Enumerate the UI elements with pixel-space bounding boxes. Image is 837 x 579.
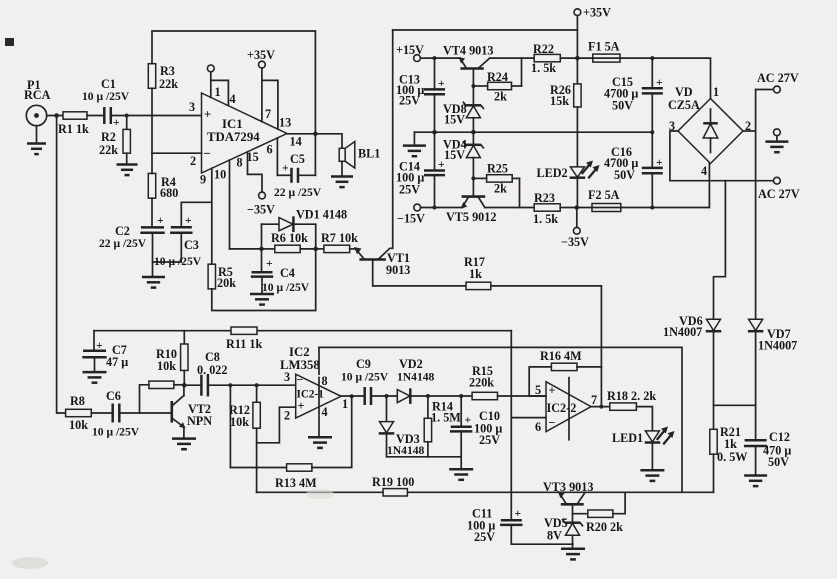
svg-text:8: 8 bbox=[322, 374, 328, 388]
terminal +15V bbox=[414, 55, 421, 62]
svg-text:15V: 15V bbox=[444, 148, 465, 162]
svg-text:2: 2 bbox=[284, 409, 290, 423]
node output bbox=[313, 132, 318, 137]
svg-text:+35V: +35V bbox=[583, 6, 611, 20]
wire +15V row bbox=[420, 57, 460, 59]
svg-text:+: + bbox=[96, 339, 103, 352]
ground bbox=[172, 437, 196, 440]
svg-text:IC2‑2: IC2‑2 bbox=[547, 401, 577, 415]
resistor R14 1.5M bbox=[427, 396, 429, 418]
ground bbox=[561, 548, 585, 551]
op-amp IC1 TDA7294 bbox=[202, 93, 288, 173]
svg-text:R13 4M: R13 4M bbox=[275, 476, 317, 490]
wire LED1 ground lead bbox=[651, 443, 653, 471]
ground bbox=[640, 469, 664, 472]
svg-text:C6: C6 bbox=[106, 389, 121, 403]
wire VT1 collector riser bbox=[392, 30, 394, 248]
wire pin3 to R13 bbox=[229, 385, 231, 467]
node input bbox=[54, 113, 59, 118]
svg-text:VD: VD bbox=[675, 85, 693, 99]
capacitor C8 0.022 bbox=[200, 375, 203, 396]
svg-text:25V: 25V bbox=[474, 530, 495, 544]
svg-text:VT4 9013: VT4 9013 bbox=[443, 44, 493, 58]
svg-text:25V: 25V bbox=[399, 183, 420, 197]
svg-text:1N4007: 1N4007 bbox=[758, 339, 797, 353]
terminal -35V bbox=[576, 208, 578, 228]
capacitor C4 bbox=[261, 249, 263, 272]
transistor VT1 9013 bbox=[361, 258, 385, 261]
wire VD6 branch bbox=[714, 181, 726, 320]
svg-text:9: 9 bbox=[200, 173, 206, 187]
wire C11 drop bbox=[510, 418, 512, 521]
wire pin6 drop bbox=[510, 331, 512, 418]
ground bbox=[449, 468, 473, 471]
svg-text:F2 5A: F2 5A bbox=[588, 188, 620, 202]
svg-text:+: + bbox=[185, 214, 192, 227]
+35V terminal IC1 bbox=[259, 61, 266, 68]
wire output to speaker bbox=[287, 134, 342, 149]
svg-text:15k: 15k bbox=[550, 94, 569, 108]
wire VD1 loop left bbox=[261, 224, 263, 249]
svg-text:R11 1k: R11 1k bbox=[226, 337, 262, 351]
resistor R17 1k bbox=[373, 285, 466, 287]
speaker BL1 bbox=[339, 148, 345, 161]
svg-text:VT3 9013: VT3 9013 bbox=[543, 480, 593, 494]
svg-text:6: 6 bbox=[535, 420, 541, 434]
resistor R8 10k bbox=[57, 116, 66, 414]
resistor R21 1k 0.5W bbox=[710, 429, 717, 454]
capacitor C16 bbox=[651, 132, 653, 168]
node R6 left bbox=[259, 247, 264, 252]
svg-text:50V: 50V bbox=[614, 168, 635, 182]
svg-text:0. 5W: 0. 5W bbox=[717, 450, 747, 464]
wire top rail bbox=[393, 29, 578, 31]
wire pin4 ground bbox=[318, 417, 320, 438]
wire mid rail bbox=[414, 131, 652, 133]
wire R4 to C2 bbox=[151, 198, 153, 227]
wire VD1 loop right bbox=[315, 224, 317, 249]
svg-text:1: 1 bbox=[342, 397, 348, 411]
wire bbox=[87, 115, 104, 117]
pin 4 stem bbox=[211, 80, 229, 105]
svg-text:1N4148: 1N4148 bbox=[397, 371, 435, 384]
svg-text:C5: C5 bbox=[290, 152, 305, 166]
wire VD3 bottom row bbox=[387, 433, 462, 456]
LED LED2 bbox=[570, 167, 584, 177]
op-amp IC2-1 bbox=[296, 374, 341, 418]
wire R12 to bus bbox=[256, 443, 258, 493]
wire bridge pin2 to AC line bbox=[743, 130, 756, 132]
svg-text:2k: 2k bbox=[494, 90, 507, 104]
node VT2 collector bbox=[182, 383, 187, 388]
wire pin10 to R6 node bbox=[230, 248, 262, 250]
-35V terminal IC1 bbox=[259, 192, 266, 199]
op-amp IC2-2 bbox=[546, 382, 591, 432]
wire supply long line bbox=[319, 347, 682, 492]
diode VD6 1N4007 bbox=[707, 319, 721, 330]
wire bus row bbox=[257, 491, 384, 493]
ground bbox=[83, 371, 107, 374]
svg-text:4: 4 bbox=[322, 405, 328, 419]
connector P1 RCA bbox=[26, 105, 46, 125]
svg-text:R18 2. 2k: R18 2. 2k bbox=[607, 389, 656, 403]
svg-text:R3: R3 bbox=[160, 64, 175, 78]
resistor feedback VT2 bbox=[149, 381, 174, 388]
transistor VT2 NPN bbox=[171, 402, 174, 421]
svg-text:20k: 20k bbox=[217, 276, 236, 290]
diode VD3 1N4148 bbox=[386, 396, 388, 422]
svg-text:R19 100: R19 100 bbox=[372, 475, 414, 489]
svg-text:+: + bbox=[438, 77, 445, 90]
svg-text:+15V: +15V bbox=[396, 43, 424, 57]
capacitor C7 47u bbox=[93, 331, 95, 351]
svg-text:15V: 15V bbox=[444, 113, 465, 127]
resistor R6 10k bbox=[262, 248, 275, 250]
svg-text:1k: 1k bbox=[469, 267, 482, 281]
svg-text:4: 4 bbox=[701, 164, 707, 178]
wire pin8 stem bbox=[318, 347, 320, 374]
wire collector to R22 bbox=[490, 57, 534, 59]
pin 15 stem bbox=[248, 152, 263, 192]
wire C2 ground lead bbox=[152, 233, 154, 277]
svg-text:R2: R2 bbox=[101, 130, 116, 144]
svg-text:1: 1 bbox=[713, 85, 719, 99]
svg-text:−: − bbox=[204, 147, 211, 161]
svg-text:LED2: LED2 bbox=[537, 166, 568, 180]
resistor R3 22k bbox=[148, 64, 155, 89]
svg-text:IC1: IC1 bbox=[222, 117, 243, 131]
svg-text:22 μ /25V: 22 μ /25V bbox=[99, 237, 147, 250]
svg-text:C1: C1 bbox=[101, 77, 116, 91]
diode VD2 1N4148 bbox=[397, 390, 410, 403]
ground bbox=[261, 277, 263, 294]
svg-text:5: 5 bbox=[535, 383, 541, 397]
svg-text:−35V: −35V bbox=[561, 235, 589, 249]
resistor R10 10k bbox=[183, 331, 185, 344]
resistor R22 1.5k bbox=[534, 54, 560, 61]
svg-text:4: 4 bbox=[230, 92, 236, 106]
ground chassis terminal bbox=[774, 129, 781, 136]
svg-text:6: 6 bbox=[267, 143, 273, 157]
wire AC top bbox=[756, 89, 774, 91]
capacitor C14 bbox=[434, 132, 436, 170]
svg-text:47 μ: 47 μ bbox=[106, 355, 128, 369]
svg-text:NPN: NPN bbox=[187, 414, 212, 428]
node R6 right bbox=[313, 247, 318, 252]
svg-text:1N4007: 1N4007 bbox=[663, 325, 702, 339]
pin 10 stem bbox=[229, 160, 231, 249]
resistor R2 22k bbox=[125, 114, 129, 118]
pin 13 stem bbox=[262, 80, 278, 129]
wire bridge pin3 to AC bottom bbox=[670, 131, 774, 181]
wire pin7 row bbox=[591, 406, 610, 408]
resistor R4 680 bbox=[148, 173, 155, 198]
svg-text:+: + bbox=[465, 414, 472, 427]
wire VD2 to R15 bbox=[410, 395, 472, 397]
resistor R15 220k bbox=[472, 392, 497, 399]
svg-text:22 μ /25V: 22 μ /25V bbox=[274, 186, 322, 199]
svg-text:−: − bbox=[549, 416, 556, 430]
LED LED1 bbox=[645, 431, 659, 442]
svg-text:TDA7294: TDA7294 bbox=[207, 130, 260, 144]
svg-text:1. 5k: 1. 5k bbox=[531, 61, 556, 75]
zener VD8 15V bbox=[466, 104, 481, 107]
ground bbox=[341, 161, 343, 176]
capacitor C11 100u 25V bbox=[501, 519, 522, 522]
wire -15V row bbox=[421, 207, 463, 209]
svg-text:R20 2k: R20 2k bbox=[586, 520, 623, 534]
feedback wire top box bbox=[152, 31, 315, 134]
wire pin6 row bbox=[511, 417, 546, 419]
svg-text:+: + bbox=[656, 76, 663, 89]
svg-text:C12: C12 bbox=[769, 430, 790, 444]
svg-text:C2: C2 bbox=[115, 224, 130, 238]
svg-text:C9: C9 bbox=[356, 357, 371, 371]
wire C8 to pin3 bbox=[208, 384, 296, 386]
ground bbox=[142, 276, 165, 279]
svg-text:+: + bbox=[549, 384, 556, 398]
svg-text:+35V: +35V bbox=[247, 48, 275, 62]
svg-text:AC 27V: AC 27V bbox=[757, 71, 799, 85]
svg-text:15: 15 bbox=[247, 150, 259, 164]
svg-text:F1 5A: F1 5A bbox=[588, 40, 620, 54]
svg-text:R22: R22 bbox=[533, 42, 554, 56]
wire F2 to bridge pin4 bbox=[621, 164, 710, 208]
svg-text:+: + bbox=[282, 162, 289, 175]
svg-text:10k: 10k bbox=[157, 359, 176, 373]
svg-text:1k: 1k bbox=[724, 437, 737, 451]
svg-text:AC 27V: AC 27V bbox=[758, 187, 800, 201]
svg-text:680: 680 bbox=[160, 186, 178, 200]
resistor R13 4M bbox=[230, 467, 286, 469]
svg-text:7: 7 bbox=[591, 393, 597, 407]
wire VT5 collector row bbox=[485, 207, 534, 209]
capacitor C12 470u 50V bbox=[745, 439, 767, 442]
resistor R11 1k bbox=[231, 327, 257, 334]
svg-text:+: + bbox=[515, 507, 522, 520]
ground bbox=[308, 436, 332, 439]
svg-text:1. 5M: 1. 5M bbox=[431, 411, 461, 425]
resistor R1 1k bbox=[63, 112, 87, 119]
capacitor C1 bbox=[103, 107, 106, 124]
svg-text:50V: 50V bbox=[768, 455, 789, 469]
svg-text:R1 1k: R1 1k bbox=[58, 122, 89, 136]
svg-text:VT5 9012: VT5 9012 bbox=[446, 210, 496, 224]
terminal -15V bbox=[414, 204, 421, 211]
bridge rectifier VD CZ5A bbox=[678, 99, 743, 164]
svg-text:+: + bbox=[266, 257, 273, 270]
wire C6 to VT2 base bbox=[119, 412, 172, 414]
svg-text:25V: 25V bbox=[479, 433, 500, 447]
svg-text:8: 8 bbox=[237, 156, 243, 170]
svg-text:+: + bbox=[298, 399, 305, 413]
svg-text:R8: R8 bbox=[70, 394, 85, 408]
wire +35V drop bbox=[576, 16, 578, 59]
capacitor C13 bbox=[434, 58, 436, 89]
capacitor C5 bbox=[277, 174, 291, 176]
wire bbox=[111, 115, 202, 117]
svg-text:R16 4M: R16 4M bbox=[540, 349, 582, 363]
resistor R16 4M bbox=[529, 367, 551, 396]
transistor VT3 9013 bbox=[562, 503, 582, 506]
zener VD4 15V bbox=[472, 132, 474, 145]
wire signal row to IC2-1 bbox=[184, 384, 201, 386]
svg-text:VD1 4148: VD1 4148 bbox=[296, 208, 347, 222]
ground bbox=[117, 163, 138, 166]
svg-text:+: + bbox=[204, 108, 211, 122]
svg-text:8V: 8V bbox=[547, 529, 562, 543]
transistor VT5 9012 bbox=[463, 195, 484, 198]
svg-text:R6 10k: R6 10k bbox=[271, 231, 308, 245]
svg-text:CZ5A: CZ5A bbox=[668, 98, 700, 112]
pin 6 stem bbox=[276, 138, 278, 175]
svg-text:C4: C4 bbox=[280, 266, 295, 280]
wire pin2 jog bbox=[257, 407, 296, 443]
svg-text:−15V: −15V bbox=[397, 212, 425, 226]
svg-text:C3: C3 bbox=[184, 238, 199, 252]
svg-text:10: 10 bbox=[214, 168, 226, 182]
node -35 rail bbox=[575, 205, 580, 210]
wire R5 bottom row bbox=[212, 249, 316, 311]
wire LED2 to -35 rail bbox=[576, 178, 578, 208]
capacitor C2 bbox=[141, 226, 164, 229]
svg-text:22k: 22k bbox=[99, 143, 118, 157]
wire R26 to LED2 bbox=[576, 107, 578, 167]
svg-text:7: 7 bbox=[265, 107, 271, 121]
capacitor C6 bbox=[91, 412, 112, 414]
svg-text:9013: 9013 bbox=[386, 263, 410, 277]
svg-text:3: 3 bbox=[284, 370, 290, 384]
pin 7 stem bbox=[261, 68, 263, 122]
wire R18 to LED1 bbox=[636, 407, 652, 431]
svg-text:−35V: −35V bbox=[247, 203, 275, 217]
svg-text:RCA: RCA bbox=[24, 88, 51, 102]
svg-text:13: 13 bbox=[279, 116, 291, 130]
node C13/C14 bbox=[432, 130, 437, 135]
svg-text:IC2: IC2 bbox=[289, 345, 310, 359]
resistor R23 1.5k bbox=[534, 204, 560, 211]
wire bbox=[47, 115, 63, 117]
svg-text:R23: R23 bbox=[534, 191, 555, 205]
svg-text:+: + bbox=[656, 156, 663, 169]
ground bbox=[744, 474, 767, 477]
svg-text:BL1: BL1 bbox=[358, 147, 380, 161]
transistor VT4 9013 bbox=[462, 67, 483, 70]
svg-text:10k: 10k bbox=[230, 415, 249, 429]
svg-text:LED1: LED1 bbox=[612, 431, 643, 445]
resistor R26 15k bbox=[576, 58, 578, 84]
svg-text:1: 1 bbox=[215, 85, 221, 99]
wire C9 to VD2 bbox=[371, 395, 397, 397]
svg-text:C8: C8 bbox=[205, 350, 220, 364]
capacitor C3 bbox=[171, 226, 192, 229]
svg-text:50V: 50V bbox=[612, 99, 633, 113]
svg-text:25V: 25V bbox=[399, 94, 420, 108]
terminal +35V bbox=[574, 9, 581, 16]
wire R11 row bbox=[94, 330, 231, 332]
diode VD1 4148 bbox=[262, 223, 280, 225]
wire R3 to minus row bbox=[151, 88, 153, 153]
diode VD7 1N4007 bbox=[749, 319, 763, 330]
svg-text:R25: R25 bbox=[487, 162, 508, 176]
node +35 rail bbox=[575, 56, 580, 61]
svg-text:3: 3 bbox=[189, 100, 195, 114]
resistor R25 2k bbox=[487, 175, 513, 182]
svg-text:VD2: VD2 bbox=[399, 357, 423, 371]
pin 1 terminal bbox=[210, 72, 212, 98]
wire VD7 down and join bbox=[755, 331, 757, 440]
node R6/R7 junction dots done above bbox=[5, 38, 14, 46]
fuse F2 5A bbox=[592, 204, 621, 212]
svg-text:10 μ /25V: 10 μ /25V bbox=[82, 90, 130, 103]
svg-text:10k: 10k bbox=[69, 418, 88, 432]
svg-text:220k: 220k bbox=[469, 376, 494, 390]
wire minus input row bbox=[152, 152, 202, 154]
wire VD6 down bbox=[713, 331, 715, 429]
svg-text:−: − bbox=[297, 373, 304, 387]
zener VD5 8V bbox=[565, 521, 580, 524]
resistor R19 100 bbox=[383, 489, 407, 496]
wire output row bbox=[341, 395, 365, 397]
svg-text:R24: R24 bbox=[487, 70, 508, 84]
wire R21 to bus bbox=[713, 454, 715, 492]
svg-text:+: + bbox=[113, 116, 120, 129]
fuse F1 5A bbox=[593, 54, 620, 62]
wire F1 to bridge pin1 bbox=[620, 58, 711, 98]
capacitor C9 bbox=[363, 387, 366, 405]
resistor R7 10k bbox=[316, 248, 324, 250]
wire C3 bottom bbox=[153, 233, 182, 262]
svg-text:0. 022: 0. 022 bbox=[197, 363, 227, 377]
svg-text:2: 2 bbox=[190, 154, 196, 168]
resistor R5 20k bbox=[208, 264, 215, 289]
svg-text:10 μ /25V: 10 μ /25V bbox=[262, 281, 310, 294]
resistor R24 2k bbox=[488, 82, 512, 89]
node VD8/VD4 bbox=[471, 130, 476, 135]
svg-text:R7 10k: R7 10k bbox=[321, 231, 358, 245]
pin 9 stem bbox=[211, 168, 213, 264]
svg-text:10 μ /25V: 10 μ /25V bbox=[92, 426, 140, 439]
resistor R20 2k bbox=[573, 513, 588, 515]
svg-text:2k: 2k bbox=[494, 182, 507, 196]
ground bbox=[36, 126, 38, 144]
resistor R18 2.2k bbox=[610, 403, 637, 410]
capacitor C10 100u 25V bbox=[460, 396, 462, 427]
svg-text:10 μ /25V: 10 μ /25V bbox=[341, 371, 389, 384]
terminal AC 27V top bbox=[774, 86, 781, 93]
capacitor C15 bbox=[651, 58, 653, 88]
svg-text:IC2‑1: IC2‑1 bbox=[297, 389, 325, 401]
svg-text:1N4148: 1N4148 bbox=[387, 444, 425, 457]
svg-text:14: 14 bbox=[290, 135, 302, 149]
terminal AC 27V bottom bbox=[774, 177, 781, 184]
resistor R12 10k bbox=[256, 385, 258, 402]
wire R17 to IC2-2 output bbox=[491, 286, 602, 407]
wire pin9 branch to C3 bbox=[181, 202, 212, 227]
svg-text:22k: 22k bbox=[159, 77, 178, 91]
svg-text:+: + bbox=[157, 214, 164, 227]
ground mid bbox=[413, 132, 415, 145]
svg-text:1. 5k: 1. 5k bbox=[533, 212, 558, 226]
